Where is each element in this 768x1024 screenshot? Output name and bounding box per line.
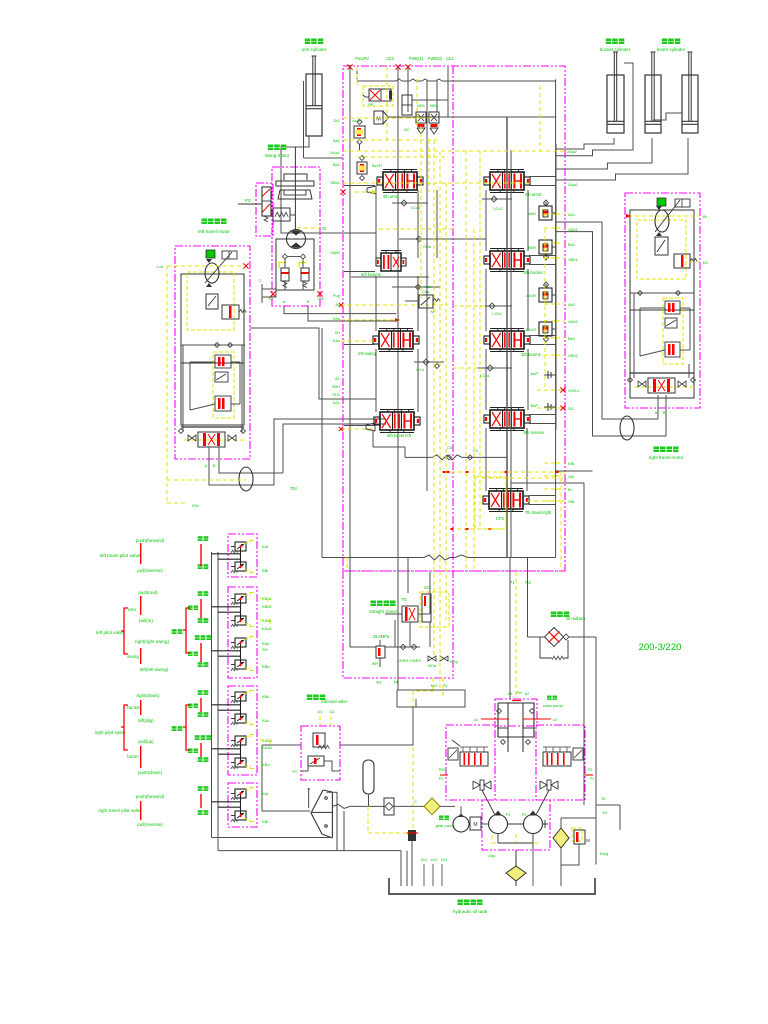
svg-text:Ldr: Ldr [157,264,163,269]
pilot line [341,428,374,430]
boom cylinder 1 [645,75,661,133]
pilot line [244,594,250,596]
check C2 [468,455,473,460]
pilot line [634,386,694,388]
straight travel label [371,601,377,607]
wire [343,398,376,400]
wire [418,613,430,615]
pilot line [492,842,541,844]
travel solenoid valve [222,305,239,319]
wire [405,300,419,302]
svg-text:B: B [213,463,216,468]
pilot line [690,261,700,263]
svg-text:9th bucket: 9th bucket [523,270,543,275]
main pump label [547,696,552,701]
label cjk [198,536,203,541]
pilot line [537,389,565,391]
svg-text:Bb1: Bb1 [568,242,576,247]
svg-text:right pilot valve: right pilot valve [95,730,126,735]
pilot line [341,304,448,306]
wire [284,281,286,290]
wire [262,744,301,746]
pilot line [343,139,437,141]
svg-text:bucket: bucket [127,705,141,710]
pilot valve [235,811,246,820]
wire [556,222,658,419]
counterbalance valve group [213,352,234,418]
pilot pump bowtie [311,790,323,834]
pump P2 [524,815,543,834]
wire c1 [481,718,509,720]
wire Pi+A2 [512,700,521,702]
svg-text:left pilot valve: left pilot valve [96,630,124,635]
right travel motor symbol [655,210,669,232]
svg-text:KAb: KAb [262,641,270,646]
pilot line [319,716,321,726]
svg-text:2th swing: 2th swing [358,351,376,356]
wire [212,606,241,608]
pilot valve [235,542,246,551]
pump top block magenta [495,699,537,726]
svg-text:D2: D2 [329,709,335,714]
pilot line [368,832,408,834]
svg-text:PaUPd: PaUPd [355,56,369,61]
svg-text:D1: D1 [317,709,323,714]
pilot line [343,150,565,152]
wire [375,190,377,258]
svg-text:left travel motor: left travel motor [198,229,230,234]
svg-text:Ac: Ac [335,302,340,307]
wire [630,292,694,294]
wire [211,552,213,838]
pilot line [444,471,565,473]
svg-text:main pump: main pump [543,703,564,708]
svg-text:XAa2: XAa2 [567,149,578,154]
svg-text:CWR2: CWR2 [409,658,422,663]
pilot line [386,67,388,140]
pilot line [343,182,530,184]
red bracket arm-swing en [124,608,128,654]
label cjk [195,635,200,640]
svg-text:FWB(1): FWB(1) [409,56,424,61]
pump P1 vertical [509,558,511,700]
wire PW1 [440,774,448,776]
svg-text:7th travel right: 7th travel right [525,510,552,515]
svg-text:KAa2: KAa2 [262,626,273,631]
wire [404,447,406,457]
node [638,291,643,296]
wire [528,636,546,638]
pilot line [244,736,250,738]
svg-text:KBc: KBc [262,694,269,699]
svg-text:LCa1: LCa1 [411,205,421,210]
wire [511,482,584,484]
pilot line [473,229,475,571]
relief BbR [539,240,552,254]
wire [556,138,688,180]
wire [397,690,465,707]
wire [357,80,396,82]
wire [399,238,486,240]
svg-text:right travel motor: right travel motor [649,455,684,460]
motor box M [470,817,481,830]
wire [485,190,487,251]
valve DC [402,95,412,115]
red link bar [200,643,202,662]
svg-text:right(right swing): right(right swing) [135,639,169,644]
right regulator box [536,725,585,800]
svg-text:XA1: XA1 [332,400,340,405]
valve spool travel left [380,412,414,430]
relief Ab1R [539,288,552,302]
wire [212,553,241,555]
svg-text:SH: SH [262,647,268,652]
svg-text:A: A [205,463,208,468]
wire [556,138,614,149]
wire [556,138,652,169]
left regulator box [446,725,495,800]
pilot line [412,691,414,832]
pilot valve [235,660,246,669]
svg-text:5th travel left: 5th travel left [387,433,412,438]
pilot line [453,367,478,369]
pilot line [343,117,430,119]
svg-text:Dr: Dr [603,810,608,815]
svg-text:A: A [655,410,658,415]
svg-text:Bb2: Bb2 [568,336,576,341]
check LCc2 [491,196,497,202]
svg-text:XBb1: XBb1 [568,257,579,262]
pump bottom box [482,800,550,850]
svg-text:Aa1: Aa1 [333,138,341,143]
motor M symbol [374,111,383,124]
pilot cap [366,423,375,431]
valve PG [262,187,271,216]
label cjk swing [188,652,193,657]
svg-text:KAA2: KAA2 [262,745,273,750]
svg-text:PW1: PW1 [439,768,447,772]
pilot line [556,337,565,339]
swing motor label [268,145,274,151]
check CWR2 [411,644,417,650]
svg-text:straight travel: straight travel [369,609,397,614]
left pilot valve box [228,587,257,678]
tilt actuator L [448,748,458,760]
wire [284,259,286,268]
counterbalance cartridge [206,250,215,258]
wire [394,805,427,807]
svg-text:PG: PG [245,198,251,203]
pilot line [166,266,168,503]
solenoid valve spool [308,756,324,766]
svg-text:Dr1: Dr1 [421,858,427,862]
left travel motor symbol [205,263,219,283]
label cjk [198,662,203,667]
relief AbR [539,206,552,220]
wire [385,646,420,648]
label cjk [195,735,200,740]
svg-text:bucket cylinder: bucket cylinder [600,47,631,52]
check C3 [447,455,452,460]
svg-text:Pz: Pz [377,680,382,685]
red link bar [200,599,202,618]
svg-text:XAb2: XAb2 [568,319,579,324]
red link bar [200,794,202,808]
svg-text:Dsp: Dsp [488,853,496,858]
suction strainer [515,850,517,866]
node PB [317,291,322,296]
pilot line [433,140,435,657]
svg-text:XOKu: XOKu [568,388,579,393]
pilot valve [235,758,246,767]
svg-text:XAa1: XAa1 [330,150,341,155]
pilot line [260,597,268,599]
svg-text:arm cylinder: arm cylinder [301,47,326,52]
wire [262,745,310,811]
wire [351,276,429,278]
svg-text:hydraulic oil tank: hydraulic oil tank [453,909,488,914]
red link bar [140,648,142,664]
wire [569,636,596,638]
svg-text:KDr: KDr [192,503,200,508]
travel solenoid valve [674,254,690,268]
pilot line [260,739,270,741]
svg-text:XAb2: XAb2 [330,250,341,255]
servo piston L [473,781,480,789]
travel speed valve [655,237,668,255]
node [339,303,343,307]
wire [556,63,633,156]
svg-text:Dr1: Dr1 [334,118,341,123]
wire [397,67,399,558]
pilot line [379,228,453,230]
wire [426,79,428,112]
pilot line [428,140,430,192]
label cjk left pilot [172,629,177,634]
label cjk [198,757,203,762]
svg-text:R2: R2 [525,580,531,585]
label cjk right pilot [172,726,177,731]
svg-text:left(left swing): left(left swing) [140,667,169,672]
wire [400,851,402,886]
counterbalance cartridge [657,198,666,206]
left travel pilot valve box [228,534,257,577]
svg-text:KAc: KAc [262,718,269,723]
counterbalance valve group [663,298,683,364]
solenoid valve label [307,695,313,701]
label cjk [198,810,203,815]
svg-text:A2: A2 [525,692,530,696]
wire [485,269,487,331]
svg-text:right travel pilot valve: right travel pilot valve [98,808,142,813]
svg-text:Pup: Pup [333,293,341,298]
wire [281,136,343,233]
hydraulic oil tank [389,878,595,894]
pilot line [556,303,565,305]
regulator servo L [460,752,488,766]
pilot line [416,79,418,126]
svg-text:C3: C3 [447,445,453,450]
red link bar [200,698,202,712]
pilot line [439,152,441,691]
wire [426,112,428,491]
svg-text:left travel pilot valve: left travel pilot valve [100,553,141,558]
wire [349,558,351,648]
wire [336,792,338,850]
svg-text:3th boom1: 3th boom1 [521,352,541,357]
valve spool travel right [489,491,523,509]
pilot line [465,151,467,571]
svg-text:M: M [586,838,590,843]
valve spool arm1 [383,172,417,190]
swing brake valve 1 [279,263,286,269]
pilot line [244,721,250,723]
svg-text:XAr: XAr [568,474,575,479]
pilot line [244,569,250,571]
label cjk [198,712,203,717]
wire [527,558,529,638]
pilot line [341,319,395,321]
pilot line [413,690,434,692]
wire [485,349,487,410]
svg-text:KAi: KAi [262,544,268,549]
svg-text:TDr: TDr [290,486,298,491]
right travel motor label [654,447,660,453]
wire [219,447,283,473]
check valve Bc1R [357,162,367,174]
wire [212,650,241,652]
svg-text:PB: PB [318,296,324,301]
pilot line [244,542,250,544]
rotary joint [239,467,253,491]
svg-text:Ck1: Ck1 [446,56,454,61]
inner frame [630,210,694,398]
label cjk [198,591,203,596]
svg-text:B: B [307,299,310,304]
svg-text:6th boom2: 6th boom2 [361,272,381,277]
arm cylinder label [305,39,311,45]
wire [340,707,413,745]
svg-text:XBs: XBs [333,316,340,321]
svg-text:Pw: Pw [516,691,522,695]
pilot line [453,305,486,307]
pilot line [346,557,348,571]
pilot line [244,692,250,694]
wire [407,67,409,112]
wire [583,483,585,805]
pilot line [515,572,517,699]
wire [376,313,396,315]
pilot line [244,638,250,640]
svg-text:oil radiator: oil radiator [566,616,586,621]
return relief [572,828,582,841]
wire [555,79,557,557]
svg-text:200-3/220: 200-3/220 [639,642,682,653]
tank label [458,900,464,906]
wire [375,276,377,331]
wire [633,293,635,378]
pilot line [556,242,565,244]
wire [321,328,323,558]
wire [397,558,399,691]
pilot line [556,488,565,490]
svg-text:Ab1: Ab1 [568,212,576,217]
check LCb1 [487,365,493,371]
check diamond yellow [424,798,440,815]
rotary joint [620,416,634,440]
valve spool swing [379,331,413,349]
svg-text:BuP: BuP [530,403,538,408]
wire [240,697,242,718]
valve spool arm2 [490,172,524,190]
pilot line [556,320,565,322]
gear pump [453,816,469,832]
svg-text:Dr2: Dr2 [431,858,437,862]
pilot line [167,502,188,504]
pilot circuit box [637,220,686,279]
swing brake spring box [273,208,290,221]
pilot valve PG box [256,183,273,236]
wire [212,748,241,750]
svg-text:KBi: KBi [262,568,268,573]
svg-text:NR2: NR2 [430,103,439,108]
wire [212,704,241,706]
wire [240,643,242,664]
main relief valve PK [363,86,393,106]
node [215,343,220,348]
svg-text:arm: arm [128,607,136,612]
pilot line [357,156,448,158]
svg-text:Tir: Tir [601,796,606,801]
pilot line [445,183,447,620]
wire [181,344,245,346]
wire [372,430,374,447]
svg-text:Dr: Dr [322,226,327,231]
pilot line [556,500,565,502]
valve spool reserve [490,410,524,428]
wire [561,817,596,819]
svg-text:KBb: KBb [262,664,270,669]
svg-text:KAr: KAr [262,791,269,796]
svg-text:push(out): push(out) [138,590,158,595]
wire [240,599,242,620]
node [243,263,248,268]
pilot line [355,191,376,193]
pilot line [244,789,250,791]
gear pump label [439,816,444,821]
svg-text:P1: P1 [506,813,511,817]
wire [250,328,343,399]
svg-text:M: M [376,117,381,123]
svg-text:WR: WR [372,661,379,666]
svg-text:KBd: KBd [262,762,270,767]
swing gearbox [284,174,307,180]
check CWR1 [400,644,406,650]
svg-text:Pi: Pi [590,777,594,781]
wire [481,823,489,825]
pilot valve [235,714,246,723]
svg-text:Cap: Cap [422,289,430,294]
pilot valve [235,692,246,701]
pump top block [498,703,534,737]
right travel pilot valve box [228,783,257,827]
node PA [270,291,275,296]
wire [536,790,549,815]
svg-text:pull(up): pull(up) [138,739,154,744]
wire [368,794,370,806]
svg-text:pull(reverse): pull(reverse) [137,822,163,827]
svg-text:NR1: NR1 [417,103,426,108]
